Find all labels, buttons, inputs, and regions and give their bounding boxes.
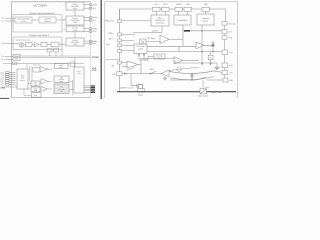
- junction box on bus: [12, 62, 17, 64]
- wire mux feeder pair: [30, 66, 33, 81]
- comparator A3: [40, 66, 50, 72]
- svg-text:TS-: TS-: [1, 58, 4, 61]
- svg-text:x: x: [64, 4, 65, 7]
- charge pump block 2 region: [13, 37, 62, 50]
- fuse F3: [175, 7, 183, 11]
- svg-text:Intrfce: Intrfce: [20, 79, 25, 82]
- SMB header box: [54, 76, 69, 83]
- filter box: [41, 42, 47, 46]
- bias box: [70, 62, 75, 66]
- wires block2 chain: [24, 44, 26, 46]
- wire upper diagonal: [169, 68, 199, 71]
- pin VTH: [222, 50, 228, 55]
- svg-text:PGB: PGB: [109, 32, 114, 35]
- wire block1 to block2: [32, 19, 39, 21]
- diode D1: [211, 41, 214, 52]
- node dots on arcs: [191, 74, 192, 75]
- vertical taps: [26, 64, 28, 69]
- clk sel box: [33, 68, 40, 72]
- PGA input box U5: [134, 44, 147, 54]
- svg-text:AIN: AIN: [106, 43, 110, 46]
- wire RK: [122, 39, 134, 41]
- wire thermal to arrows: [139, 56, 154, 60]
- bottom bus: [117, 91, 236, 93]
- varistor RV1: [200, 89, 207, 94]
- svg-text:VDDH: VDDH: [92, 16, 98, 19]
- svg-text:Temp SD: Temp SD: [33, 64, 41, 67]
- svg-text:(pump internal osc): (pump internal osc): [16, 38, 31, 41]
- svg-text:PGA_EN: PGA_EN: [105, 20, 114, 23]
- right column charge pump amp 4: [66, 38, 84, 46]
- wire AIN1: [122, 44, 134, 46]
- svg-text:UCC5634: UCC5634: [33, 4, 47, 8]
- stubs from fuses to blocks: [156, 11, 206, 15]
- svg-text:MOSFET IN GS: MOSFET IN GS: [120, 86, 134, 89]
- pin VB2: [222, 63, 228, 68]
- pin P7: [117, 72, 123, 76]
- svg-text:VDD: VDD: [163, 3, 168, 6]
- svg-text:AVDD: AVDD: [176, 3, 182, 6]
- svg-text:WG_Bst: WG_Bst: [229, 22, 237, 25]
- pin RK: [118, 39, 122, 42]
- wire switch node down to RV1: [202, 80, 204, 89]
- svg-text:Guard: Guard: [138, 47, 143, 50]
- pin PGA_EN: [118, 20, 122, 23]
- limiter PGA block: [39, 17, 56, 23]
- right column charge pump amp 3: [66, 26, 84, 32]
- svg-text:AVS-R: AVS-R: [152, 30, 158, 33]
- pin CLKIN: [5, 42, 20, 45]
- ground GND2: [163, 76, 167, 80]
- arrows into U5 bottom: [138, 54, 144, 61]
- node dot feedback: [150, 73, 151, 74]
- svg-text:Generator: Generator: [156, 22, 165, 25]
- svg-text:Pump: Pump: [73, 29, 77, 32]
- driver box Q1 package: [138, 89, 144, 92]
- buffer box: [32, 93, 42, 97]
- pin +VB: [222, 36, 227, 39]
- IC U1 outline: [11, 2, 90, 98]
- gate drive wire from U8 area: [130, 74, 132, 86]
- svg-text:BUF: BUF: [34, 94, 37, 97]
- svg-text:Amp: Amp: [73, 43, 77, 46]
- wire y51.6 to VTH: [147, 46, 222, 51]
- pin WG_Bst: [222, 22, 227, 26]
- pin LTH: [222, 30, 227, 34]
- sagging wire upper: [169, 71, 222, 74]
- fuse F5: [202, 7, 210, 11]
- wire limiter to pump amp: [56, 19, 66, 21]
- svg-text:PWB1: PWB1: [92, 27, 97, 30]
- svg-text:Sens: Sens: [158, 56, 162, 59]
- digital input pins: [2, 72, 17, 87]
- MOSFET Q1: [131, 84, 143, 89]
- bottom-left scan mark: [0, 97, 9, 99]
- wire PGA_EN to U2: [122, 20, 151, 22]
- wire to ground: [175, 61, 217, 67]
- svg-text:VDD: VDD: [186, 3, 191, 6]
- output stage box: [74, 67, 84, 93]
- svg-text:x: x: [64, 28, 65, 31]
- vref reg box: [55, 64, 69, 69]
- charge pump block 1 region: [13, 15, 62, 32]
- output stage pin rows: [84, 86, 90, 92]
- wire y30 to LTH: [183, 30, 222, 32]
- micro PWM generator U2: [151, 15, 169, 26]
- driver amp A4: [41, 79, 50, 85]
- svg-text:(PGA M): (PGA M): [44, 20, 51, 23]
- svg-text:ADM3: ADM3: [138, 93, 143, 96]
- long wire with switch lever: [122, 71, 161, 74]
- PWM PFM box U3: [174, 15, 191, 25]
- fuse F1: [153, 7, 161, 11]
- wire diagonal feedback: [127, 67, 135, 70]
- pin P6: [118, 61, 122, 64]
- figure frame: [105, 2, 238, 98]
- pin PGB: [118, 33, 122, 36]
- switch SW1 on line to LDB: [170, 77, 223, 80]
- svg-text:HBM = 2kV: HBM = 2kV: [211, 91, 222, 94]
- MUX interface box: [17, 69, 28, 89]
- svg-text:IN+: IN+: [1, 17, 4, 20]
- svg-text:GND: GND: [0, 87, 5, 90]
- vertical taps to bus: [49, 52, 51, 56]
- left pins temp sense: [5, 54, 21, 61]
- op-amp U9: [174, 57, 199, 64]
- svg-text:VDD: VDD: [92, 69, 97, 72]
- svg-text:Amp: Amp: [73, 21, 77, 24]
- top overall box: [54, 84, 69, 93]
- fuse F4: [184, 7, 192, 11]
- thermal comp box: [154, 54, 165, 59]
- small box lower stand: [140, 39, 147, 44]
- figure right frame: [100, 0, 102, 99]
- svg-text:RRC: RRC: [150, 68, 155, 71]
- bus wires: [3, 56, 91, 69]
- svg-text:PWM/PFM: PWM/PFM: [178, 19, 188, 22]
- right rail: [224, 22, 226, 81]
- right column charge pump amp 2: [66, 16, 84, 25]
- svg-text:VO2: VO2: [92, 19, 96, 22]
- sub boxes under block2: [47, 48, 62, 56]
- pga box: [51, 42, 59, 47]
- wire AIN2: [122, 50, 134, 52]
- amp A2: [35, 42, 40, 47]
- svg-text:VTH: VTH: [229, 51, 233, 54]
- pin AIN2: [118, 49, 122, 52]
- svg-text:x: x: [64, 17, 65, 20]
- wire PGB: [122, 26, 162, 34]
- op-amp U7: [196, 42, 213, 48]
- svg-text:Tape switch: Tape switch: [198, 95, 208, 98]
- pin LTP: [222, 70, 228, 74]
- dark pin bars: [91, 86, 96, 92]
- svg-text:VO1: VO1: [92, 7, 96, 10]
- current limiter box: [208, 55, 213, 60]
- svg-text:(AC-Gen): (AC-Gen): [147, 37, 155, 40]
- inductor L1 dark bar: [184, 30, 190, 32]
- wire frame tap: [105, 59, 120, 61]
- sagging wire lower: [170, 77, 214, 80]
- pin LDB: [223, 78, 228, 82]
- fuse F2: [162, 7, 170, 11]
- svg-text:TS+: TS+: [1, 55, 4, 58]
- right column charge pump amp 1: [66, 2, 84, 10]
- svg-text:10uF: 10uF: [205, 86, 209, 89]
- node dot: [201, 30, 202, 31]
- current source CS1: [177, 67, 181, 71]
- wire lower box to opamp: [146, 41, 160, 43]
- svg-text:PGND: PGND: [92, 56, 99, 59]
- wire mux to buf: [24, 84, 31, 96]
- right side pins of U1: [84, 4, 92, 45]
- wire smb to outputstage: [69, 80, 74, 95]
- svg-text:LIN: LIN: [111, 64, 115, 67]
- ground GND1: [214, 67, 219, 69]
- squaring gain block: [15, 17, 32, 23]
- svg-text:Amp: Amp: [73, 7, 77, 10]
- control box 1: [31, 81, 40, 86]
- svg-text:Device: Device: [203, 19, 209, 22]
- column link arrows: [74, 10, 76, 38]
- svg-text:VDDL: VDDL: [92, 3, 97, 6]
- osc box: [26, 43, 33, 47]
- op-amp U10: [161, 70, 169, 77]
- capacitor C1: [190, 74, 193, 80]
- op-amp U8: [122, 58, 174, 73]
- top supply rail: [120, 9, 226, 22]
- mixer X1: [5, 42, 66, 47]
- control box 2: [31, 87, 40, 92]
- left rail: [119, 9, 121, 92]
- driver amp A5: [41, 87, 50, 92]
- node dots: [201, 51, 202, 52]
- backup device U4: [197, 14, 214, 25]
- op-amp U6: [147, 25, 196, 46]
- svg-text:FLT: FLT: [1, 83, 4, 86]
- bias arrows down: [201, 25, 211, 65]
- svg-text:PBD: PBD: [204, 3, 209, 6]
